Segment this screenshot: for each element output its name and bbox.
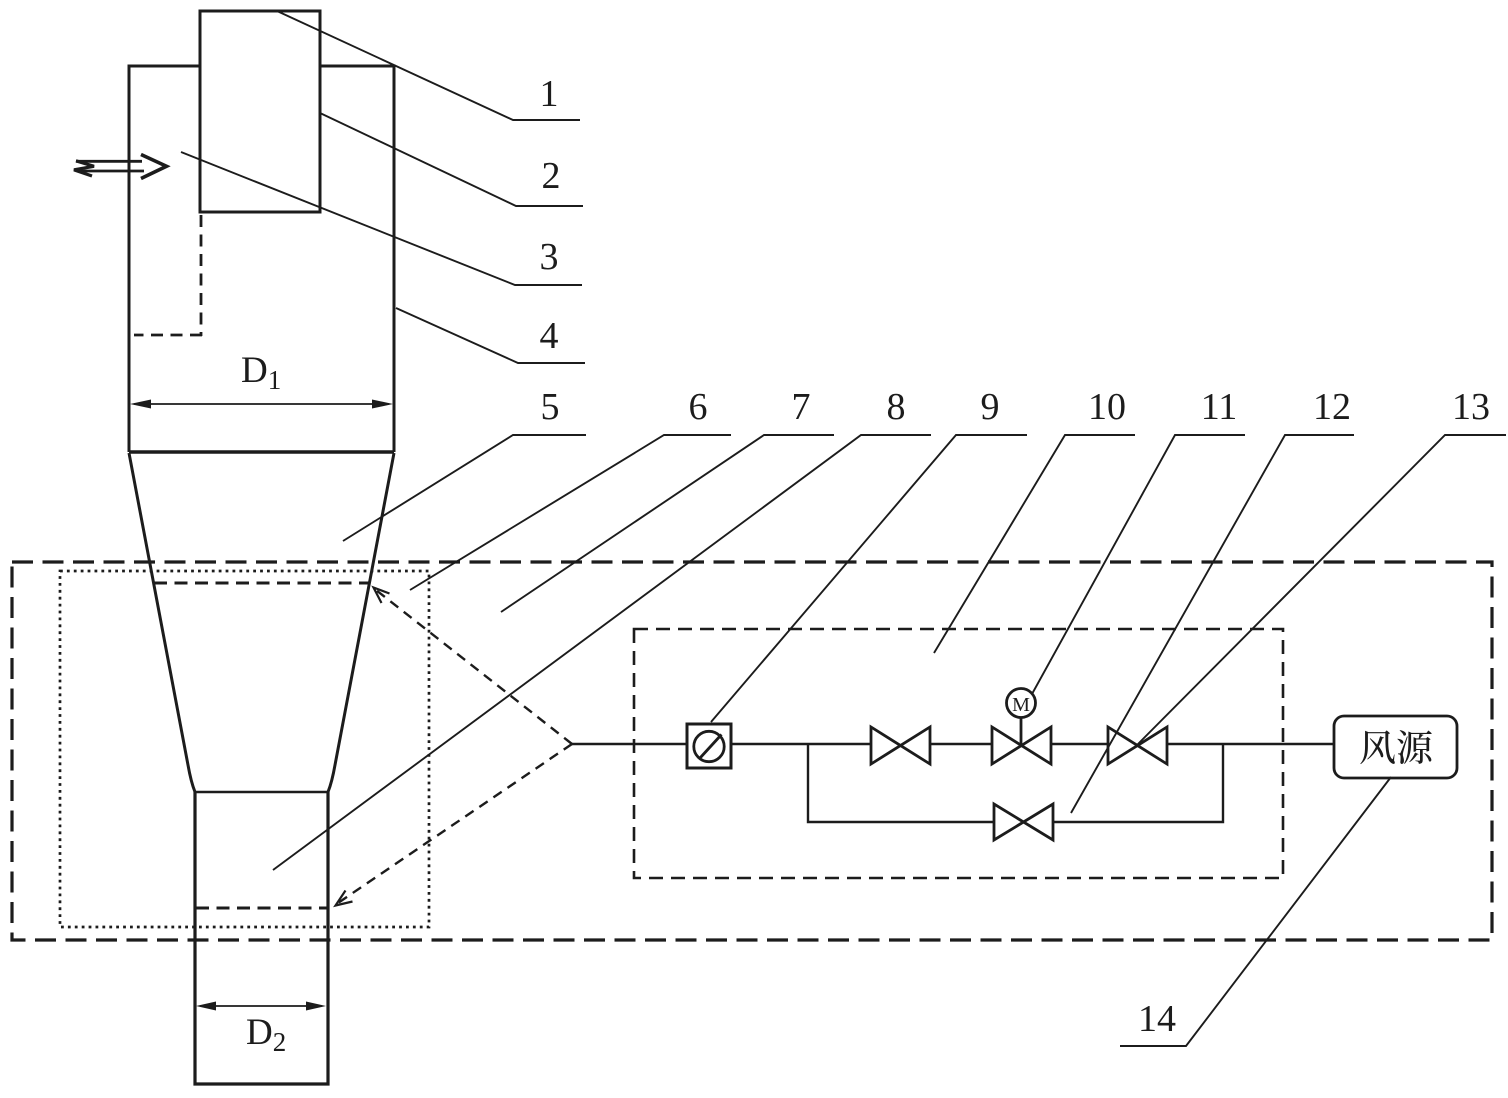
- leader 4: [396, 308, 585, 363]
- vortex finder dashed extension: [134, 215, 202, 336]
- air source label Feng: [1360, 730, 1395, 764]
- leader 7: [501, 435, 834, 612]
- leader 11: [1032, 435, 1245, 694]
- leader 13: [1137, 435, 1506, 745]
- inner dashed valve-group box 10: [634, 629, 1283, 878]
- leader 8: [273, 435, 931, 870]
- lower vortex end dashed line: [196, 907, 328, 910]
- dust outlet tube top joint line: [195, 791, 328, 794]
- leader 12: [1071, 435, 1354, 813]
- svg-text:8: 8: [887, 386, 906, 428]
- svg-text:11: 11: [1201, 386, 1238, 428]
- leader 14: [1120, 777, 1391, 1046]
- inlet flow arrow 3: [74, 155, 167, 179]
- D2 dimension arrow: [196, 1002, 326, 1011]
- flow meter 9: [687, 724, 731, 768]
- svg-text:9: 9: [981, 386, 1000, 428]
- bypass pipe wire: [808, 744, 1223, 822]
- leader 6: [410, 435, 731, 590]
- svg-text:14: 14: [1138, 998, 1176, 1040]
- D1 dimension arrow: [130, 400, 393, 409]
- svg-text:4: 4: [540, 315, 559, 357]
- air source box 14: [1334, 716, 1457, 778]
- dashed pointer to lower vortex line: [336, 744, 573, 906]
- label numbers: [540, 73, 1491, 1040]
- cyclone cone section 5: [129, 453, 394, 792]
- svg-text:2: 2: [542, 155, 561, 197]
- leader 9: [711, 435, 1027, 722]
- leader 10: [934, 435, 1135, 653]
- motor valve 11: [992, 689, 1051, 765]
- cyclone vortex finder tube 2: [200, 11, 320, 212]
- upper vortex end dashed line: [154, 582, 369, 585]
- dust outlet tube D2: [195, 792, 328, 1084]
- manual valve 8: [871, 727, 930, 764]
- cyclone barrel bottom joint line: [129, 450, 394, 454]
- svg-text:1: 1: [540, 73, 559, 115]
- leader 3: [181, 152, 582, 285]
- cyclone barrel body 4: [129, 66, 394, 452]
- regulating valve 13: [1108, 727, 1167, 764]
- main air pipe wire: [572, 743, 1334, 745]
- dotted region box 6: [60, 571, 429, 927]
- leader 5: [343, 435, 586, 541]
- leader 1: [277, 11, 580, 120]
- svg-text:6: 6: [689, 386, 708, 428]
- leader 2: [320, 113, 583, 206]
- svg-text:3: 3: [540, 236, 559, 278]
- svg-text:5: 5: [541, 386, 560, 428]
- dashed pointer to upper vortex line: [374, 588, 573, 745]
- bypass valve 12: [994, 804, 1053, 840]
- svg-text:13: 13: [1452, 386, 1490, 428]
- svg-text:12: 12: [1313, 386, 1351, 428]
- outer dashed enclosure box 7: [12, 562, 1492, 940]
- air source label Yuan: [1397, 730, 1431, 764]
- svg-text:10: 10: [1088, 386, 1126, 428]
- svg-text:7: 7: [792, 386, 811, 428]
- svg-text:M: M: [1012, 694, 1030, 716]
